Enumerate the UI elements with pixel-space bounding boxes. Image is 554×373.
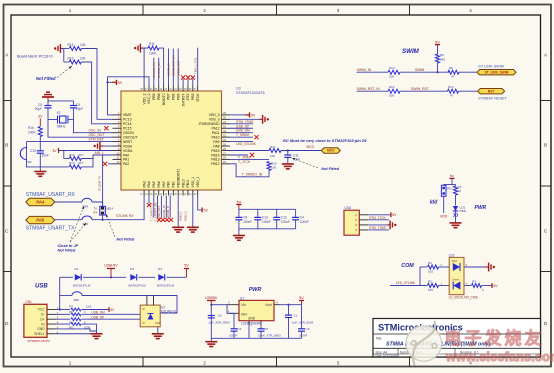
svg-text:47: 47 bbox=[450, 94, 454, 98]
svg-text:R13: R13 bbox=[389, 85, 395, 89]
svg-text:3V: 3V bbox=[52, 149, 57, 153]
svg-text:STM8AF RESET: STM8AF RESET bbox=[478, 96, 507, 100]
port RST bbox=[478, 89, 505, 94]
svg-text:20pF: 20pF bbox=[76, 107, 83, 111]
svg-text:TMS_/_TCK: TMS_/_TCK bbox=[194, 57, 198, 74]
wire AIN_1 bbox=[81, 155, 113, 159]
svg-text:RST: RST bbox=[488, 89, 494, 93]
svg-text:R4: R4 bbox=[428, 261, 432, 265]
svg-text:D+: D+ bbox=[40, 317, 44, 321]
svg-text:PB2/BOOT1: PB2/BOOT1 bbox=[176, 169, 180, 188]
svg-text:D3: D3 bbox=[130, 267, 134, 271]
wire VDDA 3V bbox=[59, 150, 114, 152]
svg-text:510: 510 bbox=[428, 288, 433, 292]
x mark PA4 bbox=[148, 196, 150, 204]
svg-text:PB3: PB3 bbox=[191, 93, 195, 100]
capacitor C11 bbox=[287, 151, 289, 156]
wire CN2 pin4 STM_JTMS bbox=[368, 229, 389, 231]
svg-text:CN1: CN1 bbox=[25, 300, 32, 304]
svg-text:RC Must be very close to STM32: RC Must be very close to STM32F103 pin 2… bbox=[283, 138, 367, 143]
connector arc TB2 bbox=[20, 148, 26, 160]
resistor R8 bbox=[448, 70, 459, 74]
svg-text:10K: 10K bbox=[80, 57, 87, 61]
power 5V R3 bbox=[491, 283, 493, 288]
svg-text:R10: R10 bbox=[389, 66, 395, 70]
wire USB_DP bbox=[230, 127, 253, 129]
mcu left pins bbox=[113, 114, 122, 116]
ground CN1 bbox=[96, 331, 98, 334]
svg-text:SWIM_RST: SWIM_RST bbox=[176, 60, 180, 76]
svg-text:B: B bbox=[5, 142, 8, 147]
wire R14 right down bbox=[81, 49, 97, 101]
svg-text:AIN_1: AIN_1 bbox=[95, 151, 104, 155]
mcu bottom pins bbox=[143, 190, 145, 196]
wire T_SWDIO_IN loop bbox=[230, 164, 269, 177]
svg-text:C3: C3 bbox=[306, 327, 310, 331]
mcu top pins bbox=[143, 86, 145, 92]
svg-text:5V: 5V bbox=[237, 200, 242, 204]
svg-text:PA12: PA12 bbox=[211, 127, 219, 131]
svg-text:PA4: PA4 bbox=[36, 200, 45, 205]
svg-text:10nF: 10nF bbox=[42, 154, 49, 158]
wire R11 to BOOT0 pin bbox=[159, 48, 164, 85]
no-erc x marks top pins bbox=[182, 79, 184, 86]
wave port top LED bbox=[464, 266, 487, 268]
wire left loop to R13 bbox=[27, 142, 69, 167]
capacitor C8 bbox=[238, 209, 240, 217]
svg-text:VCC: VCC bbox=[38, 308, 45, 312]
svg-text:3: 3 bbox=[337, 8, 340, 13]
svg-text:100nF: 100nF bbox=[243, 220, 252, 224]
svg-text:C5: C5 bbox=[264, 327, 268, 331]
svg-text:GND_2: GND_2 bbox=[184, 211, 188, 221]
wire wave to R11 bbox=[141, 47, 148, 49]
wires U2 pins bbox=[146, 296, 148, 306]
wire SWIM_IN net bbox=[168, 49, 170, 86]
wire JP1 to VDD bbox=[443, 196, 445, 213]
resistor R10 bbox=[388, 70, 400, 74]
wire STLINK_RX net bbox=[158, 58, 160, 86]
wire RX row bbox=[55, 201, 82, 203]
svg-text:VSSA: VSSA bbox=[123, 144, 133, 148]
svg-text:VDD: VDD bbox=[440, 215, 448, 219]
capacitor C5b bbox=[260, 321, 262, 325]
ground (up) crystal bbox=[46, 91, 50, 93]
wire usb second rail + SB1 bbox=[60, 295, 72, 297]
svg-text:JTMS/SWDIO: JTMS/SWDIO bbox=[198, 122, 220, 126]
svg-text:100K: 100K bbox=[28, 131, 36, 135]
svg-text:R7: R7 bbox=[69, 304, 73, 308]
wire T_JTCK PB13 bbox=[230, 158, 269, 160]
svg-text:SB14: SB14 bbox=[106, 207, 114, 211]
svg-text:ST_LINK_SWIM: ST_LINK_SWIM bbox=[485, 70, 509, 74]
svg-text:LD_BICOLOR_CMS: LD_BICOLOR_CMS bbox=[449, 296, 478, 300]
svg-text:STM_JTCK: STM_JTCK bbox=[369, 216, 386, 220]
wire wave to R14 bbox=[61, 48, 69, 50]
mcu right pins bbox=[222, 114, 231, 116]
svg-text:SWIM_RST_IN: SWIM_RST_IN bbox=[357, 87, 381, 91]
wire CN2 pin1 5V bbox=[368, 214, 391, 216]
svg-text:SWIM: SWIM bbox=[415, 68, 424, 72]
wire R15 right down bbox=[81, 62, 91, 100]
svg-text:PB5: PB5 bbox=[176, 93, 180, 100]
svg-text:JTDI: JTDI bbox=[186, 93, 190, 100]
crystal X2 bbox=[60, 116, 67, 123]
svg-text:STM8AF_USART_RX: STM8AF_USART_RX bbox=[26, 192, 76, 198]
svg-text:SWIM_IN: SWIM_IN bbox=[167, 63, 171, 76]
svg-text:100nF: 100nF bbox=[299, 333, 308, 337]
svg-text:1K: 1K bbox=[458, 189, 462, 193]
svg-text:PC14: PC14 bbox=[123, 122, 132, 126]
svg-text:OSCIN: OSCIN bbox=[123, 131, 134, 135]
ground C11 bbox=[282, 163, 294, 165]
svg-text:680: 680 bbox=[440, 58, 445, 62]
svg-text:PB0: PB0 bbox=[167, 181, 171, 188]
svg-text:100: 100 bbox=[389, 94, 394, 98]
svg-text:D1: D1 bbox=[75, 267, 79, 271]
watermark stamp bbox=[406, 321, 554, 366]
svg-text:GND: GND bbox=[37, 327, 45, 331]
svg-text:ST LINK SWIM: ST LINK SWIM bbox=[478, 64, 504, 68]
svg-text:PB11: PB11 bbox=[186, 179, 190, 187]
svg-text:R15: R15 bbox=[68, 57, 74, 61]
svg-text:1µF_X5R_0603: 1µF_X5R_0603 bbox=[209, 321, 230, 325]
svg-text:100: 100 bbox=[270, 154, 275, 158]
svg-text:PA5: PA5 bbox=[152, 181, 156, 187]
wire TX row bbox=[55, 219, 82, 221]
x mark PA2 bbox=[103, 162, 107, 166]
ground C10 bbox=[34, 171, 46, 173]
svg-text:Not Fitted: Not Fitted bbox=[58, 249, 76, 253]
svg-text:OSCOUT: OSCOUT bbox=[123, 135, 138, 139]
power 5V VDD_3 bbox=[230, 114, 245, 116]
svg-text:510: 510 bbox=[428, 269, 433, 273]
svg-text:20pF: 20pF bbox=[35, 107, 42, 111]
resistor R11 bbox=[148, 46, 159, 50]
wire GND/SHELL rows bbox=[56, 329, 97, 331]
svg-text:U3: U3 bbox=[236, 87, 241, 91]
svg-text:4: 4 bbox=[469, 8, 472, 13]
svg-text:C2: C2 bbox=[237, 327, 241, 331]
svg-text:PA6: PA6 bbox=[157, 181, 161, 187]
svg-text:USB5V: USB5V bbox=[205, 296, 218, 300]
svg-text:100nF: 100nF bbox=[229, 333, 238, 337]
svg-text:8MHz: 8MHz bbox=[57, 125, 66, 129]
capacitor C5 bbox=[45, 105, 52, 107]
svg-text:USB: USB bbox=[35, 284, 48, 290]
wires R14/R15 to PC14/PC15 bbox=[97, 100, 113, 119]
wire decoupling top rail bbox=[239, 208, 296, 210]
svg-text:3V: 3V bbox=[38, 115, 43, 119]
wire pwr bottom rail bbox=[211, 337, 301, 339]
svg-text:R13: R13 bbox=[69, 161, 75, 165]
svg-text:10K: 10K bbox=[80, 43, 87, 47]
resistor R1 1K bbox=[454, 186, 458, 195]
resistor R14 bbox=[69, 47, 81, 51]
svg-text:Red: Red bbox=[452, 259, 457, 263]
svg-text:STM_JTMS: STM_JTMS bbox=[236, 120, 254, 124]
svg-text:4K7: 4K7 bbox=[78, 161, 84, 165]
svg-text:PA2: PA2 bbox=[123, 162, 129, 166]
capacitor C10 bbox=[37, 150, 44, 152]
svg-text:PA5: PA5 bbox=[36, 218, 45, 223]
svg-text:R9: R9 bbox=[440, 53, 444, 57]
svg-text:R2: R2 bbox=[428, 280, 432, 284]
svg-text:PB15: PB15 bbox=[211, 149, 219, 153]
wire VCC row + R7 bbox=[56, 309, 60, 311]
port MCO bbox=[321, 148, 340, 153]
svg-text:5V: 5V bbox=[493, 284, 498, 288]
resistor R13b bbox=[388, 89, 400, 93]
wire T_SWIM bbox=[230, 136, 253, 138]
led LD1 RED bbox=[455, 195, 457, 206]
wire STM_JTMS bbox=[230, 123, 253, 125]
svg-text:PC13: PC13 bbox=[123, 118, 132, 122]
svg-text:STLINK TX: STLINK TX bbox=[98, 176, 102, 191]
svg-text:PA8: PA8 bbox=[213, 144, 219, 148]
svg-text:PB7: PB7 bbox=[167, 93, 171, 100]
power port VDD wave (top) bbox=[134, 47, 136, 49]
wire usb top rail bbox=[60, 276, 73, 278]
svg-text:PB14: PB14 bbox=[211, 153, 219, 157]
svg-text:BAT60JFILM: BAT60JFILM bbox=[73, 284, 91, 288]
wire VSS_1 to ground bbox=[192, 196, 194, 228]
svg-text:3: 3 bbox=[337, 361, 340, 366]
svg-text:VDD_3: VDD_3 bbox=[209, 113, 220, 117]
wire TMS/TCK net bbox=[197, 48, 199, 86]
resistor R2 510 bbox=[428, 284, 439, 288]
svg-text:R12: R12 bbox=[448, 85, 454, 89]
svg-text:电子发烧友: 电子发烧友 bbox=[445, 328, 545, 348]
svg-text:R12: R12 bbox=[69, 153, 75, 157]
svg-text:PB12: PB12 bbox=[211, 162, 219, 166]
power wave VSS_3 bbox=[230, 118, 261, 120]
resistor R3 bbox=[464, 285, 471, 287]
svg-text:R3: R3 bbox=[472, 280, 476, 284]
resistor R12b bbox=[448, 89, 459, 93]
wire T_SWIM_O bbox=[169, 196, 171, 218]
svg-text:PB6: PB6 bbox=[172, 93, 176, 100]
svg-text:R5: R5 bbox=[69, 310, 73, 314]
svg-text:USB_DP: USB_DP bbox=[91, 315, 104, 319]
svg-text:JNTRST: JNTRST bbox=[181, 94, 185, 107]
wire STM_RST bbox=[27, 141, 114, 143]
svg-text:STLINK RX: STLINK RX bbox=[116, 214, 134, 218]
svg-text:SWIM_IN: SWIM_IN bbox=[357, 68, 372, 72]
svg-text:T_JTMS: T_JTMS bbox=[238, 156, 251, 160]
svg-text:100K: 100K bbox=[149, 52, 157, 56]
wire SWIM_RST net bbox=[177, 49, 179, 86]
svg-text:www.elecfans.com: www.elecfans.com bbox=[445, 350, 554, 364]
svg-text:D4: D4 bbox=[158, 267, 162, 271]
svg-text:SWIM_RST_IN: SWIM_RST_IN bbox=[172, 55, 176, 76]
wire D- row R5 bbox=[56, 313, 70, 315]
wire ID row R6 bbox=[56, 323, 70, 325]
svg-text:Green: Green bbox=[452, 278, 460, 282]
svg-text:X2: X2 bbox=[57, 111, 61, 115]
svg-text:R11: R11 bbox=[149, 42, 155, 46]
svg-text:PB8: PB8 bbox=[157, 93, 161, 100]
wire 5V rail to VSS_2 pin and VBAT bbox=[108, 77, 150, 115]
svg-text:R16: R16 bbox=[28, 126, 34, 130]
svg-text:VDD_2: VDD_2 bbox=[142, 93, 146, 104]
svg-text:Title:: Title: bbox=[376, 337, 383, 341]
wire PB2 to ground bbox=[177, 196, 179, 228]
svg-text:SHELL: SHELL bbox=[34, 332, 44, 336]
svg-text:T_JTCK: T_JTCK bbox=[238, 160, 251, 164]
svg-text:INH: INH bbox=[241, 313, 247, 317]
svg-text:STLINK_RX: STLINK_RX bbox=[157, 62, 161, 78]
svg-text:10K: 10K bbox=[271, 166, 276, 170]
x mark PC15 bbox=[104, 126, 108, 130]
svg-text:100nF: 100nF bbox=[300, 220, 309, 224]
svg-text:PB10: PB10 bbox=[181, 179, 185, 187]
svg-text:Close to JP: Close to JP bbox=[58, 244, 79, 248]
svg-text:C10: C10 bbox=[30, 149, 36, 153]
svg-text:PB9: PB9 bbox=[152, 93, 156, 100]
wire PA3 STLINK RX down bbox=[137, 196, 144, 220]
resistor R4 510 bbox=[420, 266, 427, 268]
svg-text:VSS_2: VSS_2 bbox=[147, 93, 151, 104]
svg-text:M7SBMX-05-0M: M7SBMX-05-0M bbox=[27, 339, 50, 343]
svg-text:4K7: 4K7 bbox=[78, 153, 84, 157]
svg-text:OSC_IN: OSC_IN bbox=[89, 129, 102, 133]
x mark PB14 + T_JTMS bbox=[230, 154, 248, 156]
ground decoupling bbox=[233, 235, 245, 237]
svg-text:PB1: PB1 bbox=[172, 181, 176, 188]
resistor R16 bbox=[38, 127, 42, 137]
svg-text:1: 1 bbox=[69, 361, 72, 366]
wire usb left vertical bbox=[59, 277, 61, 309]
svg-text:5V: 5V bbox=[299, 296, 304, 300]
power wave VSSA bbox=[102, 145, 113, 147]
wire T_USART_TX bbox=[153, 196, 155, 218]
capacitor C2 bbox=[233, 313, 235, 329]
svg-text:PA11: PA11 bbox=[212, 131, 220, 135]
wire PA8 MCO row bbox=[230, 150, 269, 152]
svg-text:VBAT: VBAT bbox=[123, 113, 132, 117]
svg-text:RX: RX bbox=[93, 211, 97, 215]
wave gnd CN2 pin3 bbox=[368, 224, 389, 226]
svg-text:100: 100 bbox=[389, 75, 394, 79]
svg-text:SB1: SB1 bbox=[74, 298, 80, 302]
resistor R20 bbox=[267, 162, 271, 171]
title block bbox=[373, 319, 541, 358]
wire T_USART_RX bbox=[157, 196, 159, 218]
svg-text:B: B bbox=[544, 142, 547, 147]
wire SB14 up to MCU area bbox=[102, 155, 104, 206]
wire T_SWIM_IN bbox=[165, 196, 167, 218]
svg-text:1µF_X5R_0603: 1µF_X5R_0603 bbox=[292, 321, 313, 325]
svg-text:5V: 5V bbox=[392, 213, 397, 217]
svg-text:PA7: PA7 bbox=[162, 181, 166, 187]
wire CN2 pin2 STM_JTCK bbox=[368, 219, 389, 221]
svg-text:PA9: PA9 bbox=[213, 140, 219, 144]
svg-text:Not Fitted: Not Fitted bbox=[321, 167, 339, 171]
svg-text:T_SWDIO_IN: T_SWDIO_IN bbox=[242, 173, 263, 177]
svg-text:BAT60JFILM: BAT60JFILM bbox=[129, 284, 147, 288]
jumper JP1 bbox=[441, 185, 446, 196]
capacitor C3 bbox=[301, 305, 303, 329]
svg-text:STM_JTMS: STM_JTMS bbox=[369, 226, 386, 230]
wire R13 right bbox=[81, 159, 93, 167]
svg-text:GND_1: GND_1 bbox=[179, 211, 183, 221]
resistor R15 bbox=[69, 60, 81, 64]
svg-text:IO: IO bbox=[142, 307, 145, 311]
svg-text:VSS_1: VSS_1 bbox=[191, 177, 195, 188]
svg-text:5V: 5V bbox=[251, 114, 256, 118]
svg-text:100nF: 100nF bbox=[281, 220, 290, 224]
wires U1 left bbox=[227, 304, 239, 306]
wire LED_STLINK bbox=[230, 141, 253, 143]
svg-text:100nF: 100nF bbox=[262, 220, 271, 224]
capacitor C6 bbox=[70, 105, 77, 107]
mcu U3 STM32F103C8T6 body bbox=[121, 91, 222, 190]
svg-text:USB_DM: USB_DM bbox=[91, 311, 105, 315]
power port wave R14 bbox=[54, 47, 56, 49]
svg-text:MCO: MCO bbox=[327, 149, 335, 153]
esd U2 bbox=[140, 305, 160, 327]
solder bridge SB14 bbox=[100, 206, 106, 215]
svg-text:R14: R14 bbox=[68, 43, 74, 47]
svg-text:USB_DM: USB_DM bbox=[236, 129, 250, 133]
svg-text:GND: GND bbox=[248, 316, 256, 320]
svg-text:R17: R17 bbox=[270, 145, 276, 149]
wire USB_DM bbox=[230, 132, 253, 134]
svg-text:PA10: PA10 bbox=[211, 135, 219, 139]
capacitor C4 bbox=[295, 209, 297, 217]
wire OSC_OUT bbox=[48, 120, 113, 138]
svg-text:T_SWIM: T_SWIM bbox=[236, 133, 249, 137]
port STM8AF_USART_TX bbox=[26, 216, 55, 223]
svg-text:PA3: PA3 bbox=[142, 181, 146, 187]
svg-text:PA0: PA0 bbox=[123, 153, 129, 157]
resistor R12 bbox=[69, 157, 81, 161]
svg-text:PA4: PA4 bbox=[147, 181, 151, 187]
svg-text:Not Fitted: Not Fitted bbox=[36, 76, 56, 81]
svg-text:Idd: Idd bbox=[430, 200, 438, 206]
svg-text:47: 47 bbox=[451, 75, 455, 79]
svg-text:CN2: CN2 bbox=[345, 206, 352, 210]
ground LD1 bbox=[450, 222, 462, 224]
svg-text:GND: GND bbox=[155, 321, 161, 325]
svg-text:RED: RED bbox=[460, 209, 467, 213]
capacitor C13 bbox=[257, 209, 259, 217]
svg-text:IO: IO bbox=[142, 321, 145, 325]
svg-text:PA1: PA1 bbox=[123, 158, 129, 162]
svg-text:SWIM: SWIM bbox=[402, 48, 420, 55]
wire D+ row R4b bbox=[56, 318, 70, 320]
resistor R13 bbox=[69, 165, 81, 169]
svg-text:2: 2 bbox=[203, 361, 206, 366]
wire STLINK_TX net bbox=[153, 58, 155, 86]
wire SWIM_RST bbox=[160, 196, 162, 218]
svg-text:STLINK_TX: STLINK_TX bbox=[152, 62, 156, 78]
svg-text:LD2: LD2 bbox=[449, 253, 455, 257]
capacitor C6b bbox=[208, 315, 215, 317]
svg-text:5V: 5V bbox=[118, 81, 123, 85]
svg-text:C6: C6 bbox=[218, 314, 222, 318]
wire SWIM_RST_IN net bbox=[172, 49, 174, 86]
svg-text:1: 1 bbox=[69, 8, 72, 13]
svg-text:BOOT0: BOOT0 bbox=[162, 93, 166, 105]
svg-text:SWIM_RST: SWIM_RST bbox=[411, 87, 429, 91]
svg-text:Not Fitted: Not Fitted bbox=[117, 238, 135, 242]
svg-text:USB-5V: USB-5V bbox=[104, 264, 118, 268]
svg-text:VSS_3: VSS_3 bbox=[209, 118, 220, 122]
svg-text:10nF_X7R_0603: 10nF_X7R_0603 bbox=[258, 333, 281, 337]
power 5V arrow (left of top pins) bbox=[108, 81, 113, 83]
